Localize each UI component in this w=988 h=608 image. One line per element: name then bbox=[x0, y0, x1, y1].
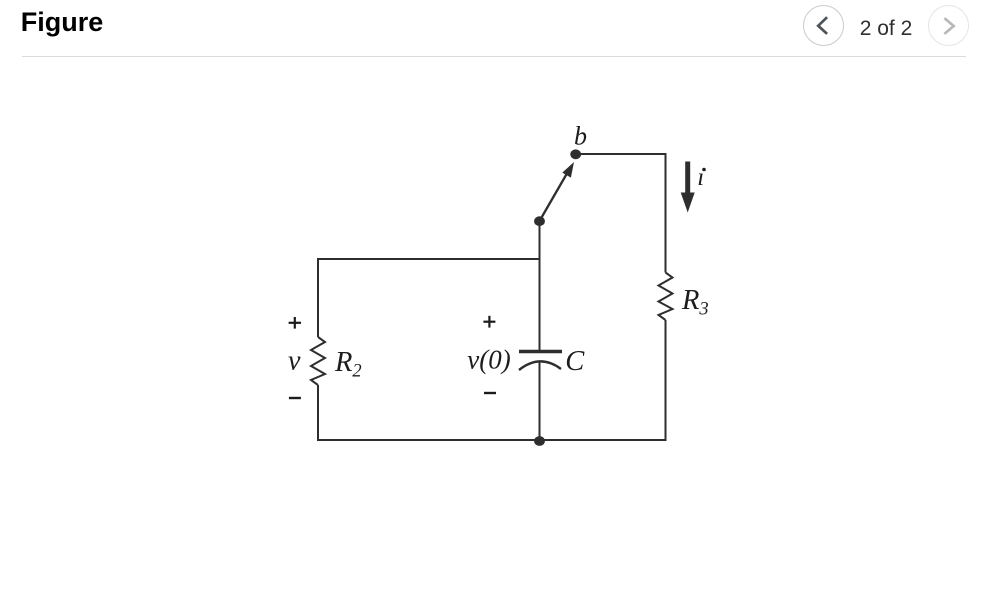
capacitor C curved plate bbox=[519, 361, 561, 370]
svg-text:v(0): v(0) bbox=[467, 344, 510, 374]
wire right vertical lower bbox=[665, 320, 667, 441]
svg-text:C: C bbox=[565, 346, 585, 377]
svg-text:b: b bbox=[574, 122, 587, 151]
wire middle vertical upper bbox=[539, 221, 541, 350]
next page button (disabled) bbox=[928, 5, 969, 46]
wire left vertical upper bbox=[317, 258, 319, 337]
wire bottom bbox=[318, 439, 666, 441]
wire top (node b to right corner) bbox=[576, 153, 666, 155]
prev page button bbox=[803, 5, 844, 46]
wire left vertical lower bbox=[317, 385, 319, 441]
bottom junction dot bbox=[534, 436, 545, 446]
switch blade arrowhead bbox=[562, 162, 574, 178]
current arrow i head bbox=[681, 193, 695, 213]
svg-text:v: v bbox=[288, 346, 301, 377]
wire top-left horizontal bbox=[317, 258, 540, 260]
wire right vertical upper bbox=[665, 153, 667, 273]
switch blade bbox=[540, 173, 568, 222]
plus sign middle bbox=[483, 316, 495, 328]
resistor R2 bbox=[311, 337, 325, 385]
svg-text:R2: R2 bbox=[334, 347, 362, 382]
header title bbox=[21, 7, 104, 38]
svg-text:R3: R3 bbox=[681, 285, 709, 320]
minus sign middle bbox=[484, 392, 496, 394]
current arrow i shaft bbox=[685, 162, 690, 194]
minus sign left bbox=[289, 397, 301, 399]
divider rule bbox=[22, 56, 966, 57]
plus sign left bbox=[289, 317, 301, 329]
page count bbox=[851, 17, 921, 41]
switch pivot junction dot bbox=[534, 216, 545, 226]
capacitor C top plate bbox=[519, 350, 562, 354]
node b junction dot bbox=[570, 149, 581, 159]
wire middle vertical lower bbox=[539, 362, 541, 441]
resistor R3 bbox=[659, 273, 673, 321]
